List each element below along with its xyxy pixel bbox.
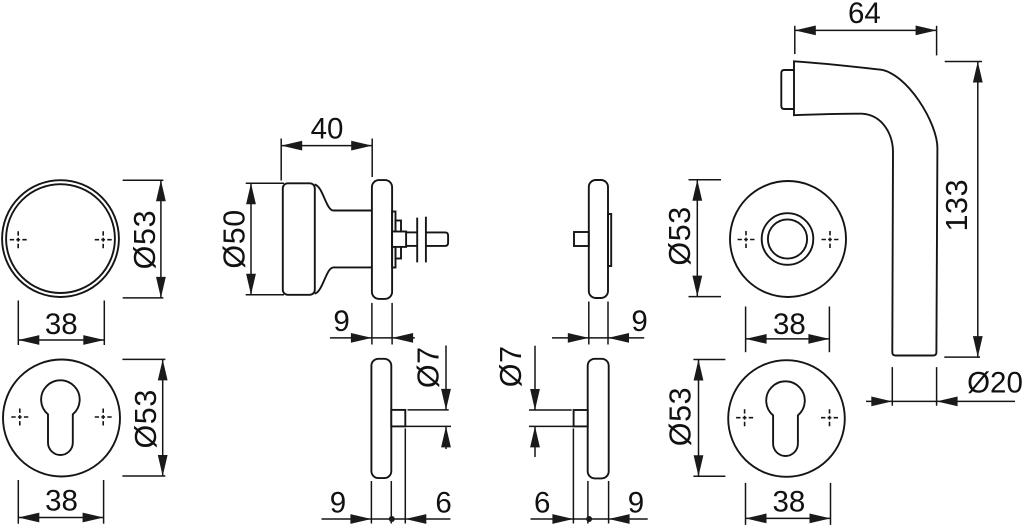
arrow toward left — [608, 333, 629, 343]
dimension Ø7 leader bottom — [534, 426, 536, 457]
figure I: cylinder rose side view right (bottom middle-right) — [494, 345, 648, 524]
arrow toward right — [351, 333, 372, 343]
arrow toward left — [937, 397, 958, 407]
spindle shaft end — [426, 232, 448, 246]
extension line rose right — [608, 481, 610, 524]
extension line pin right — [404, 428, 406, 523]
dimension 9 extension line right — [607, 302, 609, 345]
dimension Ø7 leader bottom — [445, 426, 447, 449]
arrow left — [18, 335, 39, 345]
arrow down — [156, 277, 166, 298]
dimension 6 and 9 line — [531, 518, 648, 520]
dimension Ø53 extension line top — [122, 358, 165, 360]
dimension 64 line — [795, 29, 937, 31]
dimension 38 extension line left — [745, 307, 747, 353]
arrow up — [692, 180, 702, 201]
dimension 38 extension line right — [103, 480, 105, 524]
dimension Ø53 line — [698, 360, 700, 477]
hub ring outer — [762, 213, 814, 265]
arrow left — [281, 141, 302, 151]
rose side view — [371, 359, 391, 478]
figure D: cylinder rose side view left (bottom middle-left) — [322, 346, 452, 524]
arrow down — [158, 455, 168, 476]
screw hole cross left — [736, 409, 753, 426]
arrow up — [694, 360, 704, 381]
arrow left — [746, 334, 767, 344]
arrow up — [441, 426, 451, 447]
arrow toward right — [568, 333, 589, 343]
arrow down — [694, 455, 704, 476]
dimension Ø50 line — [250, 183, 252, 294]
dimension 38 line — [746, 338, 830, 340]
knob face — [283, 183, 315, 294]
spindle plate 1 — [392, 212, 395, 268]
spindle shaft segment — [406, 231, 417, 233]
figure H: cylinder escutcheon front view (bottom right) — [664, 360, 845, 525]
dimension Ø53 line — [160, 180, 162, 298]
dimension Ø20 line — [866, 400, 1015, 402]
arrow down — [530, 389, 540, 410]
svg-text:64: 64 — [848, 0, 881, 30]
arrow up — [973, 62, 983, 83]
svg-text:40: 40 — [311, 113, 344, 146]
screw hole cross right — [95, 231, 112, 248]
extension line rose left — [370, 481, 372, 524]
dimension 38 line — [746, 517, 831, 519]
dimension 38 extension line right — [830, 483, 832, 525]
dimension Ø53 extension line top — [123, 179, 164, 181]
dimension 9 extension line left — [588, 302, 590, 345]
svg-text:Ø20: Ø20 — [967, 366, 1023, 399]
dimension 40 extension line left — [280, 139, 282, 181]
dimension Ø53 line — [162, 359, 164, 476]
svg-text:38: 38 — [772, 486, 805, 519]
dimension 9 extension line right — [391, 303, 393, 345]
svg-text:38: 38 — [45, 485, 78, 518]
arrow toward left — [405, 514, 426, 524]
knob neck top profile — [315, 184, 372, 210]
svg-text:6: 6 — [435, 487, 451, 520]
dimension 38 extension line left — [17, 480, 19, 524]
svg-text:9: 9 — [628, 487, 644, 520]
handle neck cap — [781, 70, 794, 109]
arrow right — [916, 26, 937, 36]
fixing pin — [391, 410, 405, 427]
arrow up — [530, 426, 540, 447]
extension line pin left — [572, 428, 574, 523]
svg-text:9: 9 — [330, 487, 346, 520]
fixing pin — [574, 410, 588, 426]
dimension Ø53 extension line bottom — [122, 475, 165, 477]
rose inner circle — [6, 184, 115, 293]
dimension Ø7 extension line top — [529, 409, 572, 411]
dimension 38 extension line right — [828, 307, 830, 353]
figure A: knob rose front view (top left) — [2, 180, 166, 345]
junction dot — [586, 516, 592, 522]
washer 1 — [416, 218, 418, 263]
dimension 64 extension line right — [936, 26, 938, 56]
arrow right — [83, 335, 104, 345]
arrow right — [810, 514, 831, 524]
arrow toward right — [552, 514, 573, 524]
escutcheon circle — [3, 360, 120, 477]
svg-text:Ø7: Ø7 — [411, 346, 445, 388]
dimension 64 extension line left — [794, 26, 796, 54]
svg-text:9: 9 — [631, 305, 647, 338]
dimension 38 line — [18, 339, 104, 341]
dimension Ø7 extension line bottom — [529, 425, 574, 427]
dimension 38 extension line left — [745, 483, 747, 525]
dimension 133 extension line top — [945, 61, 982, 63]
dimension Ø50 extension line top — [246, 182, 284, 184]
dimension Ø7 leader top — [445, 346, 447, 410]
arrow up — [158, 359, 168, 380]
screw hole cross right — [95, 409, 112, 426]
handle body — [794, 61, 937, 355]
dimension 38 line — [18, 517, 103, 519]
svg-text:Ø7: Ø7 — [494, 345, 528, 387]
figure J: lever handle side view (right) — [781, 0, 1023, 406]
rose side view — [589, 180, 608, 298]
arrow left — [795, 26, 816, 36]
arrow left — [18, 513, 39, 523]
figure F: lever rose side view (top middle-right) — [552, 180, 648, 345]
dimension Ø50 extension line bottom — [246, 294, 284, 296]
svg-text:9: 9 — [333, 305, 349, 338]
arrow toward right — [350, 514, 371, 524]
junction dot — [389, 516, 395, 522]
screw hole cross left — [10, 231, 27, 248]
screw hole cross right — [822, 231, 839, 248]
dimension Ø53 extension line bottom — [689, 296, 722, 298]
knob rose side view — [372, 180, 392, 299]
spindle stub — [574, 232, 589, 246]
dimension Ø53 extension line bottom — [123, 297, 164, 299]
figure C: cylinder escutcheon front view (bottom left) — [3, 359, 168, 523]
figure G: lever rose front view (top right) — [663, 180, 846, 352]
figure B: knob side view — [218, 113, 448, 345]
arrow down — [692, 276, 702, 297]
dimension 133 line — [977, 62, 979, 358]
dimension Ø20 extension line left — [891, 367, 893, 406]
dimension Ø7 extension line bottom — [405, 425, 451, 427]
arrow down — [441, 389, 451, 410]
hub ring inner — [768, 219, 807, 258]
extension line rose left — [587, 481, 589, 524]
dimension Ø53 line — [696, 180, 698, 297]
dimension 40 line — [281, 145, 372, 147]
svg-text:Ø53: Ø53 — [129, 389, 163, 448]
svg-text:38: 38 — [45, 308, 78, 341]
keyhole euro profile — [41, 380, 80, 455]
arrow down — [246, 274, 256, 295]
dimension 38 extension line right — [103, 301, 105, 346]
arrow down — [973, 336, 983, 357]
arrow up — [246, 183, 256, 204]
svg-text:Ø53: Ø53 — [663, 206, 697, 265]
washer 2 — [425, 217, 427, 263]
rose circle — [730, 181, 846, 297]
rose side view — [588, 359, 609, 479]
svg-text:Ø50: Ø50 — [218, 209, 252, 268]
svg-text:6: 6 — [534, 487, 550, 520]
arrow up — [156, 180, 166, 201]
rose outer circle — [2, 180, 119, 297]
dimension 9 extension line left — [371, 303, 373, 345]
arrow toward left — [609, 514, 630, 524]
dimension 9 and 6 line — [322, 518, 451, 520]
dimension Ø7 leader top — [534, 346, 536, 410]
dimension 9 line — [552, 337, 644, 339]
extension line rose right — [390, 481, 392, 524]
dimension Ø7 extension line top — [408, 409, 449, 411]
dimension 38 extension line left — [17, 301, 19, 346]
svg-text:Ø53: Ø53 — [664, 387, 698, 446]
keyhole euro profile — [766, 381, 805, 456]
dimension 40 extension line right — [371, 139, 373, 178]
screw hole cross right — [821, 409, 838, 426]
svg-text:Ø53: Ø53 — [128, 210, 162, 269]
arrow toward left — [392, 333, 413, 343]
spindle hub — [392, 232, 406, 247]
backplate — [608, 214, 611, 266]
screw hole cross left — [11, 409, 28, 426]
dimension Ø53 extension line top — [693, 359, 725, 361]
svg-text:38: 38 — [773, 308, 806, 341]
dimension 133 extension line bottom — [944, 356, 980, 358]
arrow toward right — [871, 397, 892, 407]
arrow right — [351, 141, 372, 151]
dimension Ø53 extension line top — [689, 179, 722, 181]
arrow right — [83, 513, 104, 523]
svg-text:133: 133 — [940, 179, 974, 232]
dimension 9 line — [330, 337, 415, 339]
dimension Ø53 extension line bottom — [693, 475, 725, 477]
dimension Ø20 extension line right — [936, 367, 938, 406]
arrow left — [746, 514, 767, 524]
screw hole cross left — [738, 231, 755, 248]
knob neck bottom profile — [315, 267, 372, 293]
spindle plate 2 — [396, 221, 402, 259]
arrow right — [808, 334, 829, 344]
escutcheon circle — [728, 360, 845, 477]
